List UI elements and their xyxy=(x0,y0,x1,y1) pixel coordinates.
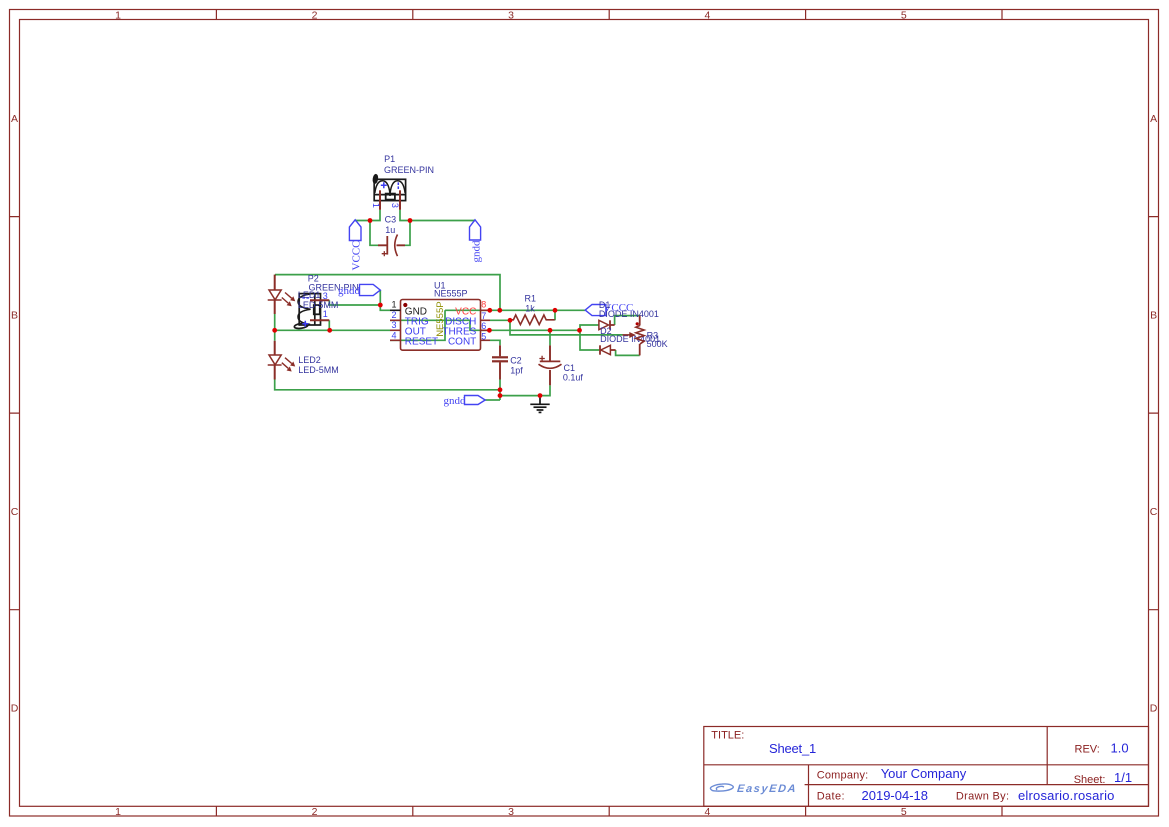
op-amp U1 NE555P body xyxy=(401,300,481,351)
P2 polarity marks xyxy=(302,298,309,327)
junction DISCH/R1 left xyxy=(508,318,513,323)
svg-text:3: 3 xyxy=(508,9,514,21)
wire VCC row pin8 xyxy=(445,309,585,311)
junction LED1/LED2/OUT xyxy=(272,328,277,333)
svg-text:7: 7 xyxy=(481,311,486,321)
wire TRIG to THRES xyxy=(390,320,580,330)
junction ground stem xyxy=(538,393,543,398)
title block dividers xyxy=(704,727,1149,807)
svg-text:1: 1 xyxy=(115,806,121,818)
net flag VCCC top xyxy=(349,220,362,271)
svg-text:1: 1 xyxy=(371,203,381,208)
svg-text:EasyEDA: EasyEDA xyxy=(736,783,797,795)
svg-text:Sheet_1: Sheet_1 xyxy=(769,741,816,756)
svg-text:500K: 500K xyxy=(647,339,668,349)
junction U1.8 VCC xyxy=(487,308,492,313)
junction VCC/R1 right xyxy=(553,308,558,313)
U1 orientation dot xyxy=(403,303,407,307)
wire ground row xyxy=(500,385,550,395)
svg-text:REV:: REV: xyxy=(1075,744,1100,756)
wire LED1 node to LED2 xyxy=(274,330,276,341)
svg-text:C: C xyxy=(11,506,19,518)
EasyEDA logo xyxy=(710,784,733,791)
capacitor C2 xyxy=(492,345,508,379)
ground xyxy=(530,396,549,413)
svg-text:C: C xyxy=(1150,506,1158,518)
svg-text:Your Company: Your Company xyxy=(881,766,967,781)
potentiometer R3 xyxy=(623,316,645,356)
svg-text:3: 3 xyxy=(390,203,400,208)
svg-text:gndd: gndd xyxy=(338,285,361,297)
svg-text:NE555P: NE555P xyxy=(435,301,446,336)
svg-text:B: B xyxy=(11,309,18,321)
svg-text:C3: C3 xyxy=(385,214,397,224)
svg-text:6: 6 xyxy=(481,321,486,331)
connector P1 xyxy=(373,174,406,200)
wire D1 cathode to R3 top xyxy=(615,316,640,325)
diode D1 xyxy=(599,320,615,329)
svg-text:3: 3 xyxy=(508,806,514,818)
svg-text:VCCC: VCCC xyxy=(351,241,363,271)
svg-text:Sheet:: Sheet: xyxy=(1074,774,1106,786)
U1 pin7 stub xyxy=(481,319,491,321)
svg-text:R1: R1 xyxy=(525,293,537,303)
wire DISCH to wiper xyxy=(510,320,623,335)
svg-text:D: D xyxy=(1150,703,1158,715)
svg-text:gndd: gndd xyxy=(444,395,467,407)
svg-text:LED-5MM: LED-5MM xyxy=(298,300,339,310)
svg-text:RESET: RESET xyxy=(405,337,438,348)
junction P1.1/C3/VCCC xyxy=(368,218,373,223)
svg-text:2: 2 xyxy=(312,806,318,818)
svg-text:5: 5 xyxy=(901,806,907,818)
junction dots xyxy=(272,218,582,398)
svg-text:LED-5MM: LED-5MM xyxy=(298,365,339,375)
svg-text:4: 4 xyxy=(704,806,710,818)
net flag gndd top xyxy=(470,220,483,263)
connector P2 xyxy=(294,294,320,330)
svg-text:1: 1 xyxy=(391,300,396,310)
svg-text:1: 1 xyxy=(323,309,328,319)
diode D2 xyxy=(600,345,616,354)
P1 pin 1 xyxy=(379,190,381,210)
resistor R1 xyxy=(510,315,555,325)
P1 polarity marks xyxy=(381,182,399,189)
wire OUT row xyxy=(275,329,390,331)
junction P2.1/OUT xyxy=(327,328,332,333)
svg-text:LED1: LED1 xyxy=(298,290,321,300)
ruler ticks top xyxy=(216,10,1002,20)
junction P1.3/C3/gndd xyxy=(408,218,413,223)
svg-text:1: 1 xyxy=(115,9,121,21)
svg-text:3: 3 xyxy=(391,320,396,330)
svg-text:GREEN-PIN: GREEN-PIN xyxy=(384,165,434,175)
svg-text:1/1: 1/1 xyxy=(1114,770,1132,785)
svg-text:NE555P: NE555P xyxy=(434,289,468,299)
ruler ticks bottom xyxy=(216,806,1002,816)
U1 pin1 stub xyxy=(390,309,401,311)
ruler ticks left xyxy=(10,217,20,610)
wire C1 top xyxy=(549,330,551,345)
svg-text:Drawn By:: Drawn By: xyxy=(956,791,1009,803)
wire gndd flag drop xyxy=(379,290,381,305)
ruler ticks right xyxy=(1149,217,1159,610)
junction C2/bottom loop xyxy=(498,387,503,392)
svg-text:D: D xyxy=(11,703,19,715)
svg-text:0.1uf: 0.1uf xyxy=(563,373,584,383)
junction VCC/top loop xyxy=(497,308,502,313)
junction THRES/D1/D2 xyxy=(577,328,582,333)
U1 pin8 stub xyxy=(481,309,491,311)
wire gndd to U1 pin1 xyxy=(380,305,390,310)
wire C2 bottom xyxy=(499,380,501,401)
LED LED1 xyxy=(268,275,295,314)
wire R1 right riser xyxy=(554,310,556,320)
svg-text:Company:: Company: xyxy=(817,769,869,781)
svg-text:1k: 1k xyxy=(525,303,535,313)
wire P2 pin1 down xyxy=(328,320,330,330)
P2 pin 1 xyxy=(310,319,329,321)
junction gndd flag/U1.1 xyxy=(378,303,383,308)
svg-text:P1: P1 xyxy=(384,154,395,164)
wire D1 anode xyxy=(580,325,599,350)
U1 pin5 stub xyxy=(481,339,491,341)
P2 pin 3 xyxy=(310,299,329,301)
wire node to C3 left xyxy=(370,221,378,246)
svg-text:4: 4 xyxy=(704,9,710,21)
net flag VCCC right xyxy=(585,302,633,315)
wire LED1 top xyxy=(274,275,276,276)
svg-text:1pf: 1pf xyxy=(510,366,523,376)
wire RESET riser xyxy=(390,310,445,340)
capacitor C1 xyxy=(539,345,562,385)
U1 pin2 stub xyxy=(390,319,401,321)
net flag gndd bottom xyxy=(444,395,486,407)
svg-text:A: A xyxy=(11,113,18,125)
junction U1.6 THRES xyxy=(487,328,492,333)
svg-text:B: B xyxy=(1150,309,1157,321)
U1 pin4 stub xyxy=(390,339,401,341)
wire DISCH to R1 xyxy=(490,319,510,321)
wire P2 pin3 to gndd xyxy=(329,300,380,305)
svg-text:5: 5 xyxy=(901,9,907,21)
svg-text:1.0: 1.0 xyxy=(1111,740,1129,755)
capacitor C3 xyxy=(378,235,405,257)
svg-text:Date:: Date: xyxy=(817,791,845,803)
svg-text:CONT: CONT xyxy=(448,337,476,348)
wire top loop VCC xyxy=(275,275,500,311)
svg-text:1u: 1u xyxy=(385,225,395,235)
wire D2 anode to R3 bottom xyxy=(616,350,640,355)
svg-text:DIODE IN4001: DIODE IN4001 xyxy=(599,309,659,319)
wire P1 pin1 to VCCC flag xyxy=(355,210,380,221)
wire node to C3 right xyxy=(405,221,410,246)
svg-text:elrosario.rosario: elrosario.rosario xyxy=(1018,788,1115,803)
svg-text:C1: C1 xyxy=(564,363,576,373)
junction gndd flag bottom xyxy=(498,393,503,398)
svg-text:gndd: gndd xyxy=(471,240,483,263)
svg-text:8: 8 xyxy=(481,300,486,310)
wire P1 pin3 to gndd flag xyxy=(400,210,475,221)
LED LED2 xyxy=(268,341,295,380)
net flag gndd middle xyxy=(338,284,380,296)
svg-text:C2: C2 xyxy=(510,355,522,365)
svg-text:A: A xyxy=(1150,113,1157,125)
wire gndd bottom flag xyxy=(485,399,500,401)
P1 pin 3 xyxy=(399,190,401,210)
U1 pin6 stub xyxy=(481,329,491,331)
U1 pin3 stub xyxy=(390,329,401,331)
junction THRES/C1 xyxy=(548,328,553,333)
svg-text:4: 4 xyxy=(391,331,396,341)
wire LED2 bottom loop xyxy=(275,380,500,390)
svg-text:2019-04-18: 2019-04-18 xyxy=(862,788,929,803)
wire LED1 bottom to node xyxy=(274,314,276,330)
svg-text:2: 2 xyxy=(312,9,318,21)
wire CONT to C2 xyxy=(490,340,500,345)
svg-text:2: 2 xyxy=(391,310,396,320)
title block outline xyxy=(704,727,1149,807)
svg-text:LED2: LED2 xyxy=(298,355,321,365)
svg-text:TITLE:: TITLE: xyxy=(711,730,744,742)
svg-text:5: 5 xyxy=(481,331,486,341)
